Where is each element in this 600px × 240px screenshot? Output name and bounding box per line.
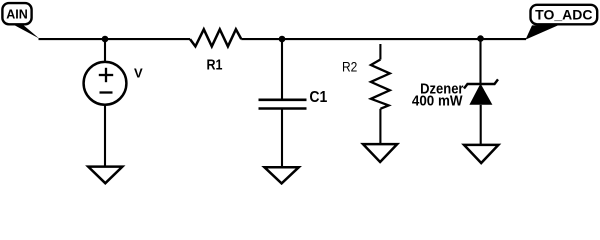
node junction dot at zener [477, 35, 484, 42]
svg-text:R1: R1 [207, 57, 223, 73]
node AIN flag box [2, 3, 39, 38]
resistor R1 [190, 29, 241, 73]
svg-text:400 mW: 400 mW [412, 93, 463, 110]
ground (below R2) [363, 144, 397, 162]
ground (below C1) [264, 167, 298, 183]
wire junction to C1 [281, 39, 283, 100]
wire V source to ground [104, 105, 106, 167]
node TO_ADC flag box [526, 5, 598, 40]
wire junction to V source [104, 39, 106, 62]
svg-text:TO_ADC: TO_ADC [535, 6, 592, 22]
node junction dot at V source [102, 36, 109, 43]
resistor R2 [342, 59, 390, 109]
wire R1 to TO_ADC [241, 38, 526, 40]
capacitor C1 [259, 89, 328, 108]
voltage source V [84, 62, 143, 105]
zener diode Dzener [412, 79, 498, 109]
ground (below V) [88, 167, 122, 184]
node junction dot at C1 [279, 36, 286, 43]
ground (below zener) [464, 145, 498, 163]
wire AIN to R1 [39, 38, 191, 40]
wire R2 to ground [379, 109, 381, 144]
wire stub above R2 [379, 44, 381, 60]
svg-text:V: V [134, 66, 143, 81]
svg-text:C1: C1 [309, 89, 327, 106]
wire C1 to ground [281, 109, 283, 167]
wire zener to ground [480, 105, 482, 145]
svg-text:AIN: AIN [6, 8, 28, 22]
svg-text:R2: R2 [342, 59, 357, 75]
wire junction to zener cathode [479, 39, 481, 84]
